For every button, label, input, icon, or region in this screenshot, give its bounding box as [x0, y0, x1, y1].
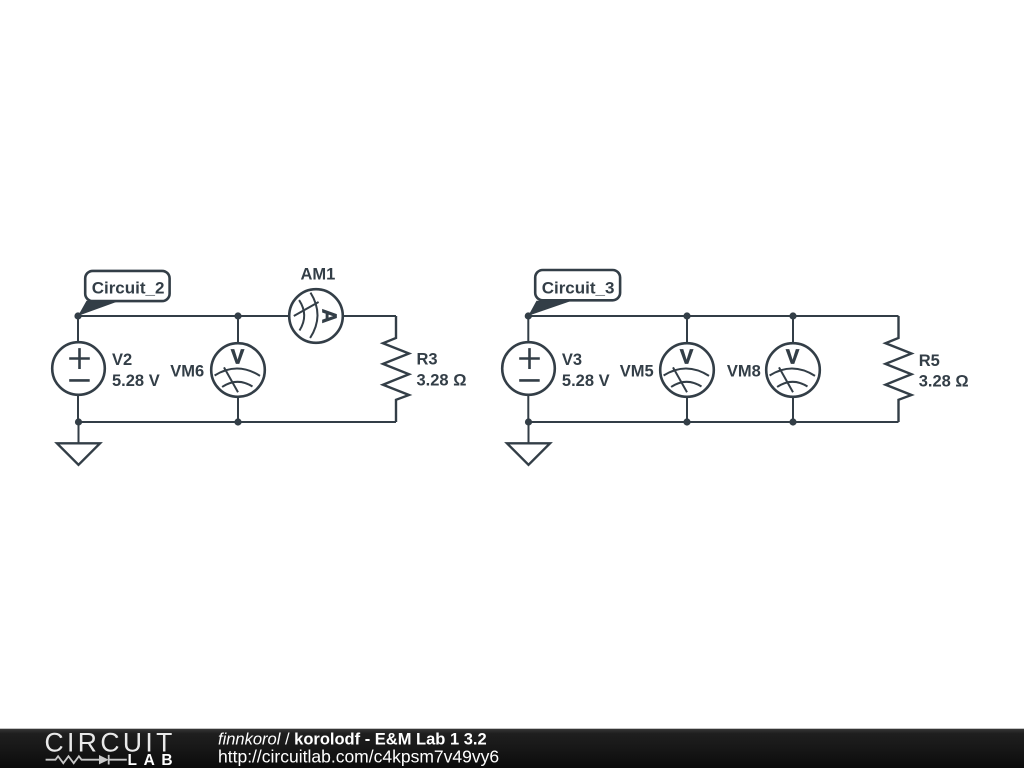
wire V2 bottom lead: [77, 395, 79, 423]
node (VM5 top junction): [683, 312, 690, 319]
svg-text:V: V: [231, 346, 245, 368]
voltmeter VM8: [766, 343, 820, 397]
footer title line: [218, 731, 487, 749]
node (top-left junction right circuit): [525, 312, 532, 319]
wire VM6 bottom lead: [237, 397, 239, 423]
svg-text:5.28 V: 5.28 V: [112, 372, 160, 390]
svg-text:A: A: [318, 309, 340, 323]
footer background: [0, 729, 1024, 768]
svg-text:R3: R3: [417, 351, 438, 369]
wire V2 top lead: [77, 316, 79, 343]
logo resistor-diode glyph: [46, 755, 127, 765]
svg-text:R5: R5: [919, 352, 940, 370]
voltmeter VM6: [211, 343, 265, 397]
svg-text:V2: V2: [112, 351, 132, 369]
svg-text:V3: V3: [562, 351, 582, 369]
label V2 value: [112, 351, 160, 390]
wire ammeter to top-right corner: [343, 315, 396, 317]
ground (right): [507, 422, 550, 465]
footer url line: [218, 747, 499, 767]
wire bottom: [78, 421, 396, 423]
label R5 value: [919, 352, 969, 390]
wire VM5 bottom lead: [686, 397, 688, 423]
label V3 value: [562, 351, 610, 390]
svg-text:Circuit_3: Circuit_3: [542, 279, 615, 298]
wire VM5 top lead: [686, 316, 688, 344]
svg-text:VM6: VM6: [170, 363, 204, 381]
wire VM8 bottom lead: [792, 397, 794, 423]
logo CIRCUIT wordmark: [45, 728, 176, 758]
wire VM6 top lead: [237, 316, 239, 344]
label VM6: [170, 363, 204, 381]
net label Circuit_3: [528, 270, 620, 316]
logo LAB wordmark: [128, 752, 180, 768]
node (VM6 top junction): [234, 312, 241, 319]
resistor R5: [886, 316, 912, 422]
node A (top-left junction): [74, 312, 81, 319]
label VM8: [727, 363, 761, 381]
svg-text:3.28 Ω: 3.28 Ω: [417, 372, 467, 390]
svg-text:3.28 Ω: 3.28 Ω: [919, 372, 969, 390]
wire bottom: [528, 421, 898, 423]
node (VM8 top junction): [789, 312, 796, 319]
svg-text:5.28 V: 5.28 V: [562, 372, 610, 390]
wire top from node to ammeter: [78, 315, 289, 317]
svg-text:AM1: AM1: [301, 266, 336, 284]
voltage source V2: [52, 342, 105, 395]
label AM1: [301, 266, 336, 284]
ground (left): [57, 422, 100, 465]
wire VM8 top lead: [792, 316, 794, 344]
svg-text:LAB: LAB: [128, 752, 180, 768]
node (VM6 bottom junction): [234, 418, 241, 425]
node (ground junction left): [75, 418, 82, 425]
svg-text:V: V: [680, 346, 694, 368]
wire top: [528, 315, 898, 317]
wire V3 bottom lead: [527, 395, 529, 423]
label VM5: [620, 363, 654, 381]
svg-text:Circuit_2: Circuit_2: [92, 278, 165, 297]
node (VM5 bottom junction): [683, 418, 690, 425]
net label Circuit_2: [78, 271, 170, 316]
label R3 value: [417, 351, 467, 390]
svg-text:VM8: VM8: [727, 363, 761, 381]
voltage source V3: [502, 342, 555, 395]
svg-text:http://circuitlab.com/c4kpsm7v: http://circuitlab.com/c4kpsm7v49vy6: [218, 747, 499, 767]
node (VM8 bottom junction): [789, 418, 796, 425]
voltmeter VM5: [660, 343, 714, 397]
svg-text:VM5: VM5: [620, 363, 654, 381]
svg-text:V: V: [786, 346, 800, 368]
ammeter AM1: [289, 289, 343, 343]
resistor R3: [383, 316, 409, 422]
wire V3 top lead: [527, 316, 529, 343]
node (ground junction right): [525, 418, 532, 425]
